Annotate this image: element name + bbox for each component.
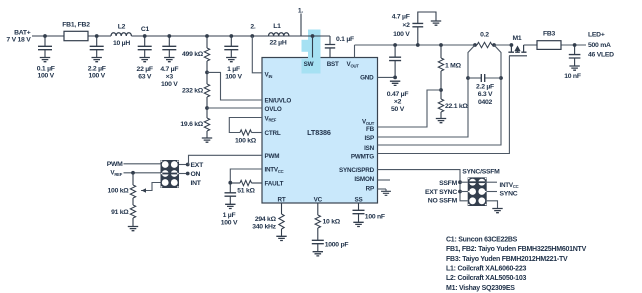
wire ISMON stub [378,179,391,181]
wire RP [378,189,387,191]
ground SS [353,222,363,226]
svg-text:7 V 18 V: 7 V 18 V [6,36,31,43]
svg-text:EN/UVLO: EN/UVLO [265,98,292,105]
svg-text:BAT+: BAT+ [14,29,31,36]
ground 91k [128,227,138,231]
capacitor 4.7uF x2 100V [392,12,436,47]
resistor 22.1k [438,90,468,119]
svg-text:RP: RP [366,186,374,193]
pin RP [366,186,374,193]
capacitor 1uF 100V INTVcc [221,183,238,227]
svg-text:PWM: PWM [265,153,280,160]
pin ISP [364,135,374,142]
wire NO SSFM to ground [487,201,498,209]
capacitor 2.2uF 6.3V 0402 [466,74,503,106]
capacitor 0.47uF x2 50V [387,43,409,113]
svg-text:SYNC: SYNC [500,191,518,198]
svg-text:GND: GND [360,75,374,82]
wire FB1 to L2 [88,35,111,37]
ferrite bead FB1, FB2 [62,22,90,41]
svg-text:×3: ×3 [166,73,174,80]
node SYNC/SSFM header title [462,168,500,175]
wire L2 to node 2 [131,35,252,37]
svg-text:SS: SS [355,197,363,204]
node 2 marker [250,24,256,38]
pin FB [366,126,375,133]
svg-text:1.: 1. [298,7,304,14]
pin VOUT top [347,61,360,68]
svg-text:BST: BST [327,61,339,68]
svg-text:6.3 V: 6.3 V [478,91,493,98]
op-amp U1 LT8386 IC body [262,58,378,204]
node divider EN/UVLO tap [205,61,209,84]
resistor 51k FAULT pullup [230,180,262,194]
svg-text:L1: L1 [273,23,281,30]
ground 22.1k [436,119,446,123]
svg-text:LED+: LED+ [588,31,605,38]
svg-text:FB1, FB2: Taiyo Yuden FBMH3225: FB1, FB2: Taiyo Yuden FBMH3225HM601NTV [446,246,587,253]
transistor M1 PMOS [508,35,527,56]
svg-text:C1: C1 [141,26,150,33]
node parts list notes [446,236,587,292]
svg-text:100 V: 100 V [221,220,238,227]
svg-text:EXT: EXT [191,162,205,169]
wire FB pin to divider [378,90,442,127]
svg-text:C1: Suncon 63CE22BS: C1: Suncon 63CE22BS [446,236,518,243]
svg-text:1 µF: 1 µF [227,66,240,73]
resistor 232k [182,84,210,97]
pin BST [327,61,339,68]
node INTVcc label [500,182,519,189]
svg-text:0.1 µF: 0.1 µF [336,36,354,43]
capacitor 0.1uF BST [325,36,354,58]
svg-text:4.7 µF: 4.7 µF [160,66,178,73]
svg-text:FAULT: FAULT [265,181,284,188]
pin OVLO [265,106,282,113]
svg-text:L2: Coilcraft XAL5050-103: L2: Coilcraft XAL5050-103 [446,275,526,282]
resistor 19.6k [180,118,209,138]
wire SYNC/SPRD [378,170,468,201]
svg-text:FB1, FB2: FB1, FB2 [62,22,90,29]
pin CTRL [265,130,281,137]
node EXT label [191,162,205,169]
pin PWMTG [351,153,374,160]
pin VREF [265,115,277,122]
pin VOUT right [362,119,375,126]
inductor L2 10 uH [111,23,131,47]
jumper block PWM EXT/ON/INT [161,160,180,188]
ground RT [276,236,286,240]
svg-text:NO SSFM: NO SSFM [428,198,458,205]
wire SW pin [312,36,314,58]
svg-text:SYNC/SSFM: SYNC/SSFM [462,168,500,175]
ground SYNC jumper [492,209,502,213]
svg-text:22 µH: 22 µH [269,40,286,47]
wire INTVcc jumper [487,181,497,183]
svg-text:SYNC/SPRD: SYNC/SPRD [339,167,375,174]
node VREF label [110,170,160,177]
svg-text:22.1 kΩ: 22.1 kΩ [445,103,468,110]
svg-text:L1: Coilcraft XAL6060-223: L1: Coilcraft XAL6060-223 [446,266,526,273]
capacitor 100nF SS [353,203,385,222]
svg-text:100 V: 100 V [161,81,178,88]
svg-text:500 mA: 500 mA [588,42,611,49]
svg-text:FB3: FB3 [543,31,556,38]
svg-text:INT: INT [191,180,202,187]
svg-text:VC: VC [314,197,323,204]
wire INTVcc pin [228,169,262,185]
resistor 10k VC [315,203,341,228]
node NO SSFM label [428,198,458,205]
resistor 499k [182,34,210,61]
svg-text:ISP: ISP [364,135,374,142]
svg-text:10 kΩ: 10 kΩ [323,219,341,226]
svg-text:51 kΩ: 51 kΩ [237,187,255,194]
svg-text:100 nF: 100 nF [365,214,385,221]
node EXT SYNC label [425,189,457,196]
node SSFM label [439,180,457,187]
wire ISN kelvin [378,45,502,145]
svg-text:M1: Vishay SQ2309ES: M1: Vishay SQ2309ES [446,285,515,292]
svg-text:1000 pF: 1000 pF [325,242,349,249]
ground 4.7uF x2 [431,21,441,25]
resistor 1M [438,43,461,90]
svg-text:2.2 µF: 2.2 µF [476,83,494,90]
pin SW [304,61,314,68]
svg-text:232 kΩ: 232 kΩ [182,87,204,94]
wire input rail BAT+ to FB1 [32,35,64,37]
ground RP [381,191,391,195]
wire EN/UVLO tap to pin [207,72,262,100]
svg-text:50 V: 50 V [391,106,405,113]
svg-text:340 kHz: 340 kHz [252,223,276,230]
svg-text:22 µF: 22 µF [137,66,153,73]
wire SYNC jumper [487,191,497,193]
node BAT+ input terminal [6,29,31,43]
wire VOUT rail [355,44,587,46]
capacitor 0.1uF 100V input [37,34,55,79]
pin ISMON [354,176,374,183]
svg-text:FB3: Taiyo Yuden FBMH2012HM221: FB3: Taiyo Yuden FBMH2012HM221-TV [446,256,568,263]
resistor 294k RT [252,203,284,236]
svg-text:L2: L2 [118,23,126,30]
svg-text:100 kΩ: 100 kΩ [108,188,130,195]
SW node highlight callout numeral 1 [302,30,321,74]
pin GND [360,75,374,82]
capacitor 4.7uF x3 100V [160,34,178,88]
svg-text:4.7 µF: 4.7 µF [392,13,410,20]
pin FAULT [265,181,284,188]
resistor 100k VREF-CTRL [229,118,262,145]
node INT wiper wire [141,180,202,193]
svg-text:×2: ×2 [402,22,410,29]
svg-text:2.: 2. [250,24,256,31]
svg-text:ON: ON [191,171,201,178]
svg-text:46 VLED: 46 VLED [588,52,614,59]
ferrite bead FB3 [537,31,561,50]
capacitor C1 22uF 63V [137,26,153,80]
svg-text:100 V: 100 V [88,72,105,79]
resistor 0.2 sense [473,32,496,48]
pin INTVcc [265,167,284,174]
capacitor 2.2uF 100V input [88,34,106,79]
pin PWM [265,153,280,160]
svg-text:100 V: 100 V [37,72,54,79]
svg-text:1 MΩ: 1 MΩ [445,63,462,70]
svg-text:ISMON: ISMON [354,176,374,183]
node SYNC label [500,191,518,198]
svg-text:63 V: 63 V [138,73,152,80]
node divider OVLO tap [205,97,209,118]
svg-text:M1: M1 [513,35,522,42]
wire OVLO tap to pin [207,107,262,109]
pin SS [355,197,363,204]
svg-text:RT: RT [278,197,286,204]
svg-text:FB: FB [366,126,375,133]
svg-text:10 µH: 10 µH [113,40,130,47]
pin VC [314,197,323,204]
node ON jumper [179,171,201,178]
pin SYNC/SPRD [339,167,375,174]
ground VC [313,252,323,256]
pin RT [278,197,286,204]
capacitor 1000pF VC [312,228,349,252]
wire VOUT pin riser [354,45,356,58]
svg-text:OVLO: OVLO [265,106,282,113]
wire EXT to PWM pin [179,155,262,166]
svg-text:294 kΩ: 294 kΩ [255,216,277,223]
wire GND pin [378,76,398,80]
wire node 2 to SW node [252,35,330,37]
svg-text:PWMTG: PWMTG [351,153,374,160]
svg-text:0.2: 0.2 [480,32,489,39]
svg-text:91 kΩ: 91 kΩ [111,209,129,216]
svg-text:19.6 kΩ: 19.6 kΩ [180,121,203,128]
svg-text:100 V: 100 V [225,73,242,80]
node 1 marker SW [298,7,304,36]
inductor L1 22 uH [269,23,289,46]
ground 1uF INTVcc [225,204,235,208]
svg-text:1 µF: 1 µF [223,212,236,219]
pin VIN [265,72,273,79]
svg-text:2.2 µF: 2.2 µF [88,65,106,72]
svg-text:EXT SYNC: EXT SYNC [425,189,457,196]
pin ISN [364,145,375,152]
svg-text:0.47 µF: 0.47 µF [387,91,409,98]
svg-text:100 V: 100 V [393,31,410,38]
svg-text:0.1 µF: 0.1 µF [37,65,55,72]
ground 10nF [569,66,579,70]
svg-text:ISN: ISN [364,145,375,152]
svg-text:LT8386: LT8386 [307,128,331,137]
svg-text:499 kΩ: 499 kΩ [182,51,204,58]
pin EN/UVLO [265,98,292,105]
node LT8386 part label [307,128,331,137]
svg-text:10 nF: 10 nF [564,73,581,80]
capacitor 10nF LED [564,45,581,80]
ground GND pin [390,81,400,85]
svg-text:0402: 0402 [478,99,493,106]
svg-text:×2: ×2 [394,99,402,106]
node LED+ terminal [573,31,614,58]
wire node 2 to VIN pin [252,36,262,73]
wire ISP kelvin [378,45,476,137]
svg-text:CTRL: CTRL [265,130,281,137]
svg-text:SW: SW [304,61,314,68]
ground divider [202,138,212,142]
node FB divider [439,88,443,92]
svg-text:100 kΩ: 100 kΩ [235,138,257,145]
capacitor 1uF 100V Vin [224,34,242,80]
resistor 91k [111,198,136,227]
wire PWMTG to M1 gate [378,56,510,154]
node PWM input label [107,161,161,168]
potentiometer 100k [108,173,136,198]
jumper block SYNC/SSFM [468,177,487,206]
svg-text:PWM: PWM [107,161,123,168]
node SW junction [311,34,315,38]
svg-text:SSFM: SSFM [439,180,457,187]
